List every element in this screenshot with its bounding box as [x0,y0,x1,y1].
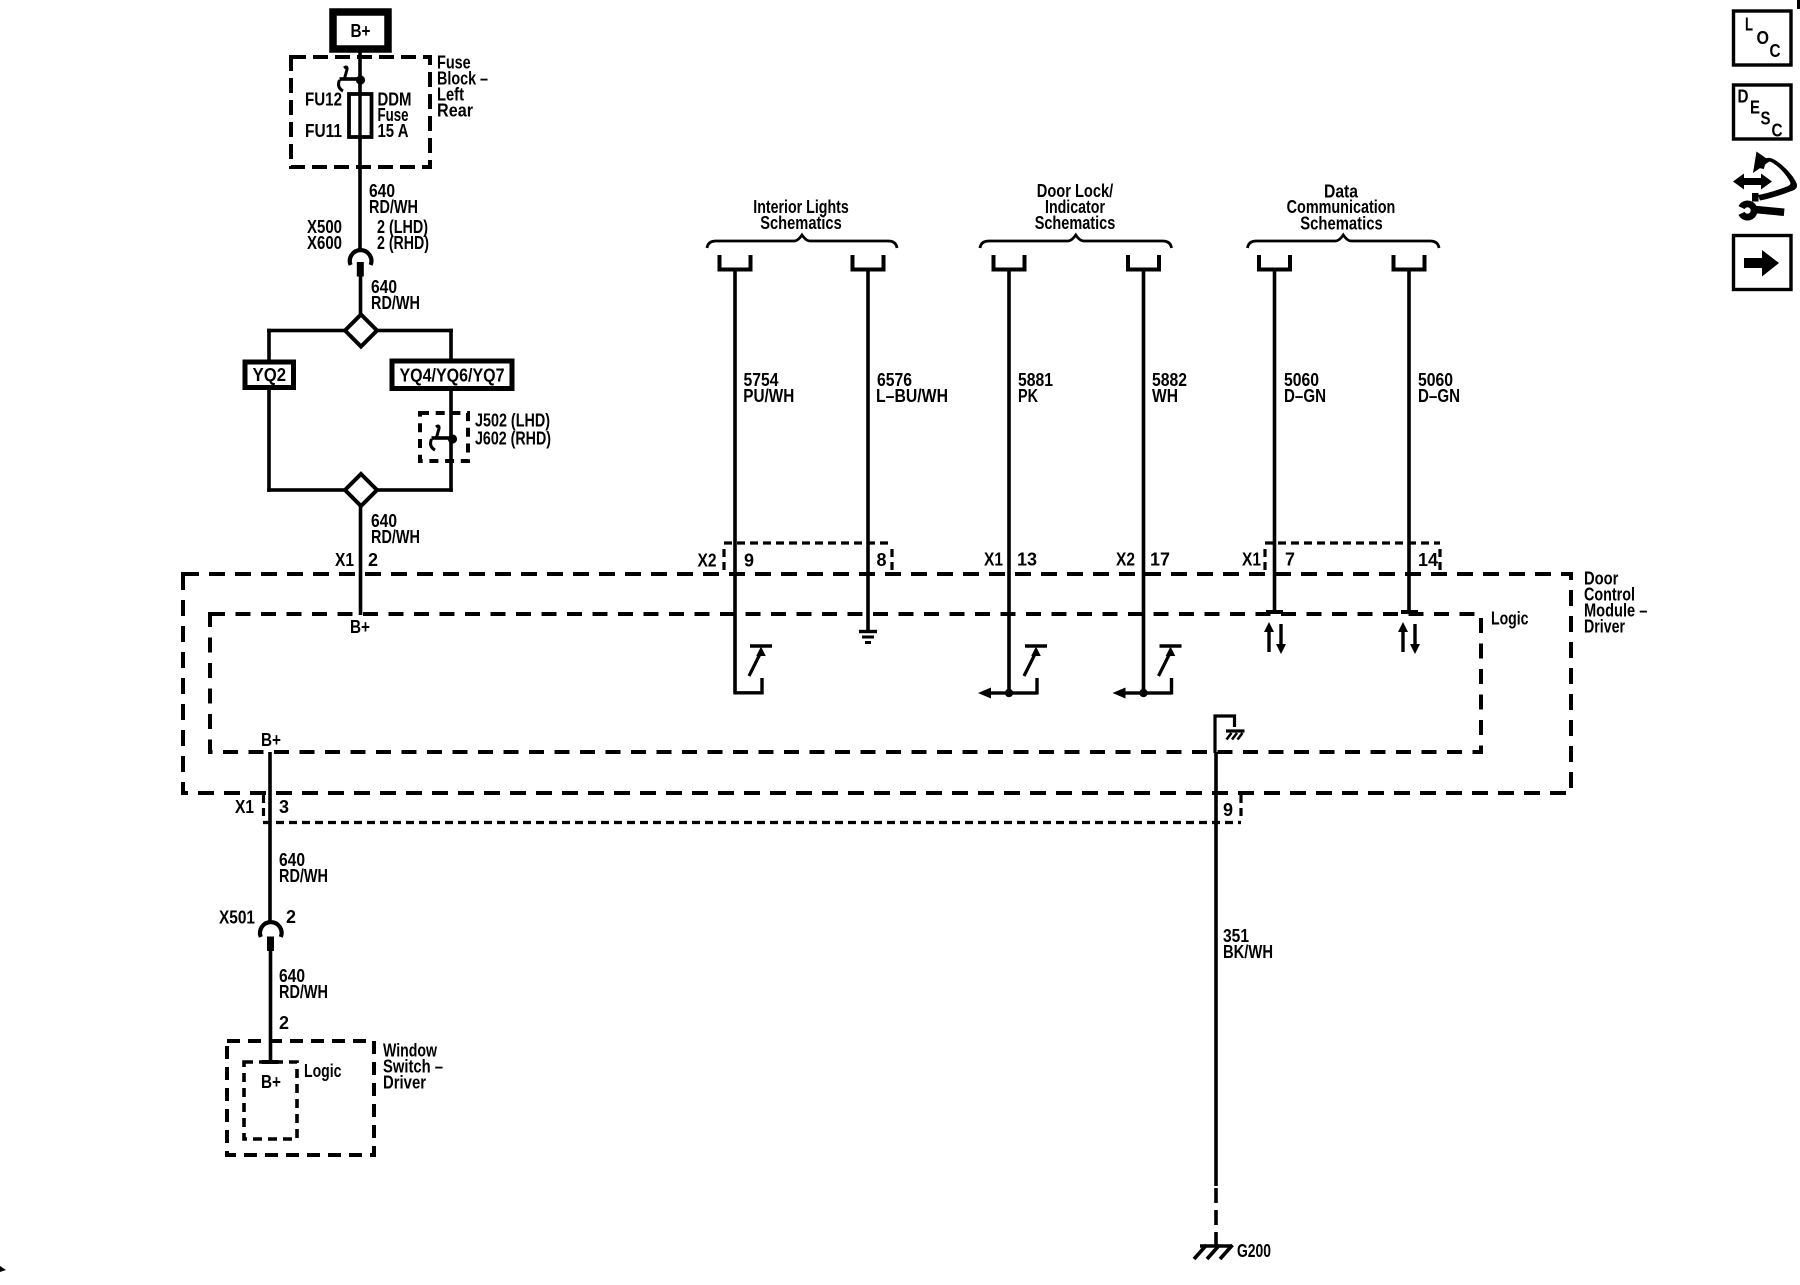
svg-text:7: 7 [1285,550,1295,570]
logic box inside module [210,614,1481,752]
svg-text:PK: PK [1018,386,1038,406]
wire X500 to splice diamond [359,276,363,314]
svg-text:YQ2: YQ2 [253,365,287,385]
splice diamond upper [345,315,377,347]
svg-text:D–GN: D–GN [1418,386,1460,406]
label 5881 PK [1018,370,1053,406]
svg-text:RD/WH: RD/WH [371,293,420,313]
svg-text:L: L [1745,15,1753,35]
label Logic window switch [304,1061,342,1081]
svg-text:D–GN: D–GN [1284,386,1326,406]
label Door Control Module - Driver [1584,569,1647,637]
svg-text:2: 2 [286,907,296,927]
label pin X1 2 [335,550,378,570]
splice diamond lower [345,474,377,506]
svg-text:PU/WH: PU/WH [743,386,794,406]
label connector X500 X600 [307,217,342,253]
svg-text:Driver: Driver [383,1073,426,1093]
svg-text:B+: B+ [351,21,371,41]
svg-text:15 A: 15 A [378,121,409,141]
svg-text:L–BU/WH: L–BU/WH [876,386,948,406]
off-page terminal wire 6576 [853,255,884,270]
wire YQ4 to lower splice [377,389,453,492]
svg-text:BK/WH: BK/WH [1223,942,1273,962]
svg-text:B+: B+ [350,617,370,637]
svg-text:13: 13 [1017,550,1037,570]
svg-text:14: 14 [1418,550,1438,570]
switch in logic for wire 5754 [735,644,772,693]
label Door Lock Indicator Schematics [1035,181,1116,233]
label circuit 640 RD/WH above module [371,511,420,547]
label Fuse Block - Left Rear [437,53,488,121]
wire B+ to fuse block [358,49,362,95]
label 351 BK/WH [1223,926,1273,962]
svg-text:Schematics: Schematics [1300,214,1382,234]
off-page terminal wire 5754 [720,255,751,270]
label Data Communication Schematics [1287,182,1396,234]
label X1 pin 7 and 14 [1242,550,1438,571]
svg-text:Driver: Driver [1584,617,1625,637]
svg-text:J602 (RHD): J602 (RHD) [475,429,551,449]
connector box X2 pins 9 8 [724,543,892,571]
page corner mark bottom left [0,1266,6,1272]
ground G200 symbol [1194,1245,1233,1259]
label Window Switch - Driver [383,1041,443,1093]
brace Data Communication Schematics [1248,235,1440,248]
label Interior Lights Schematics [753,197,849,233]
label circuit 640 RD/WH below X500 [371,277,420,313]
terminal bar wire 5060 right at logic [1401,610,1418,614]
wire lower splice to module pin X1-2 [359,506,363,615]
label J502 LHD J602 RHD [475,411,551,449]
label circuit 640 RD/WH lower [279,966,328,1002]
svg-text:B+: B+ [261,1072,281,1092]
icon box forward arrow [1734,236,1792,290]
icon box LOC [1734,11,1792,65]
connector box X1 pins 7 14 [1265,543,1440,571]
label DDM Fuse 15 A [378,90,412,142]
label B+ window switch [261,1072,281,1092]
svg-text:Schematics: Schematics [1035,213,1116,233]
fuse clip junction [339,67,366,91]
svg-text:X1: X1 [335,550,354,570]
wire splice to YQ2 branch [267,329,345,362]
label X1 pin 13 [984,550,1037,570]
svg-text:X1: X1 [1242,550,1261,570]
label connector X501 pin 2 [219,907,296,928]
svg-text:X600: X600 [307,233,342,253]
label B+ inside logic left [261,730,281,750]
svg-text:X2: X2 [698,551,717,571]
svg-text:X2: X2 [1116,550,1135,570]
off-page terminal wire 5060 left [1259,255,1290,270]
option box YQ2 [245,362,294,388]
connector J502 clip junction [431,426,458,450]
svg-text:2 (RHD): 2 (RHD) [377,233,429,253]
off-page terminal wire 5881 [994,255,1025,270]
label pin 2 window switch [279,1013,289,1033]
wire 5882 WH [1142,270,1146,694]
svg-text:Logic: Logic [1491,609,1529,629]
label 5060 D-GN right [1418,370,1460,406]
label 5754 PU/WH [743,370,794,406]
svg-text:RD/WH: RD/WH [371,527,420,547]
connector X501 inline symbol [260,922,282,951]
connector box X1 pin 3 to 9 bottom [263,795,1241,823]
svg-text:B+: B+ [261,730,281,750]
svg-text:C: C [1770,41,1781,61]
label 5060 D-GN left [1284,370,1326,406]
switch with arrow for wire 5881 [978,644,1047,698]
wire B+ logic to pin X1-3 [268,752,272,822]
label B+ at module pin X1-2 [350,617,370,637]
off-page terminal wire 5060 right [1394,255,1425,270]
svg-text:9: 9 [1223,800,1233,820]
label FU12 [305,90,342,110]
module box Door Control Module - Driver [183,574,1571,793]
wire 5060 D-GN right [1407,270,1411,613]
icon box DESC [1734,85,1792,141]
svg-text:C: C [1772,121,1783,141]
off-page terminal wire 5882 [1128,255,1159,270]
svg-text:J502 (LHD): J502 (LHD) [475,411,550,431]
switch with arrow for wire 5882 [1113,644,1182,698]
svg-text:RD/WH: RD/WH [279,866,328,886]
svg-text:X1: X1 [984,550,1003,570]
fuse block dashed box [291,57,430,167]
wire X501 to window switch [269,950,273,1063]
page corner mark top right [1797,0,1800,9]
power symbol B+ battery feed [333,12,388,49]
svg-text:RD/WH: RD/WH [279,982,328,1002]
connector J502/J602 dashed box [420,413,468,461]
data arrows pin 14 [1398,622,1420,654]
fuse FU11/FU12 DDM Fuse 15 A [349,94,372,137]
connector X500/X600 inline symbol [350,250,372,276]
wire splice to YQ4 branch [377,329,453,361]
wire 351 BK/WH [1214,752,1218,1186]
window switch dashed box [227,1041,374,1155]
brace Interior Lights Schematics [707,235,897,248]
svg-text:FU12: FU12 [305,90,342,110]
svg-text:O: O [1757,28,1770,48]
label 6576 L-BU/WH [876,370,948,406]
terminal bar at window switch logic [262,1060,279,1064]
option box YQ4/YQ6/YQ7 [392,361,512,389]
svg-text:X501: X501 [219,908,255,928]
label circuit 640 RD/WH upper [369,181,418,217]
svg-text:17: 17 [1150,550,1170,570]
svg-text:Schematics: Schematics [760,213,842,233]
svg-text:8: 8 [877,550,887,570]
label X1 pin 3 [235,797,289,817]
wire 6576 L-BU/WH [866,270,870,631]
data arrows pin 7 [1264,622,1286,654]
svg-text:WH: WH [1152,386,1178,406]
label pin 2 LHD RHD [377,217,429,253]
icon data exchange arrows with tool [1733,152,1797,221]
label G200 [1237,1241,1271,1261]
svg-text:3: 3 [279,797,289,817]
svg-text:D: D [1738,87,1749,107]
svg-text:S: S [1761,109,1771,129]
wire YQ2 to lower splice [267,388,345,492]
label X2 pin 9 and 8 [698,550,887,571]
ground symbol inside logic for wire 6576 [859,630,877,644]
wire 5060 D-GN left [1273,270,1277,613]
wire 5754 PU/WH [733,270,737,693]
wire fuse to connector X500 [358,136,362,252]
terminal bar wire 5060 left at logic [1266,610,1283,614]
svg-text:Rear: Rear [437,101,473,121]
svg-text:FU11: FU11 [305,121,342,141]
svg-text:2: 2 [368,550,378,570]
label FU11 [305,121,342,141]
wire 5881 PK [1007,270,1011,694]
label pin 9 bottom [1223,800,1233,820]
wire pin 3 to X501 [268,822,272,924]
label Logic [1491,609,1529,629]
window switch logic dashed box [244,1062,297,1139]
label 5882 WH [1152,370,1187,406]
label X2 pin 17 [1116,550,1170,570]
svg-text:X1: X1 [235,797,254,817]
svg-text:Logic: Logic [304,1061,342,1081]
svg-text:RD/WH: RD/WH [369,197,418,217]
chassis ground symbol inside logic [1215,716,1245,753]
svg-text:G200: G200 [1237,1241,1271,1261]
brace Door Lock Indicator Schematics [980,235,1172,248]
label circuit 640 RD/WH mid [279,850,328,886]
wire dashed to G200 [1214,1188,1218,1246]
svg-text:YQ4/YQ6/YQ7: YQ4/YQ6/YQ7 [400,366,505,386]
svg-text:E: E [1750,98,1760,118]
svg-text:2: 2 [279,1013,289,1033]
svg-text:9: 9 [744,551,754,571]
